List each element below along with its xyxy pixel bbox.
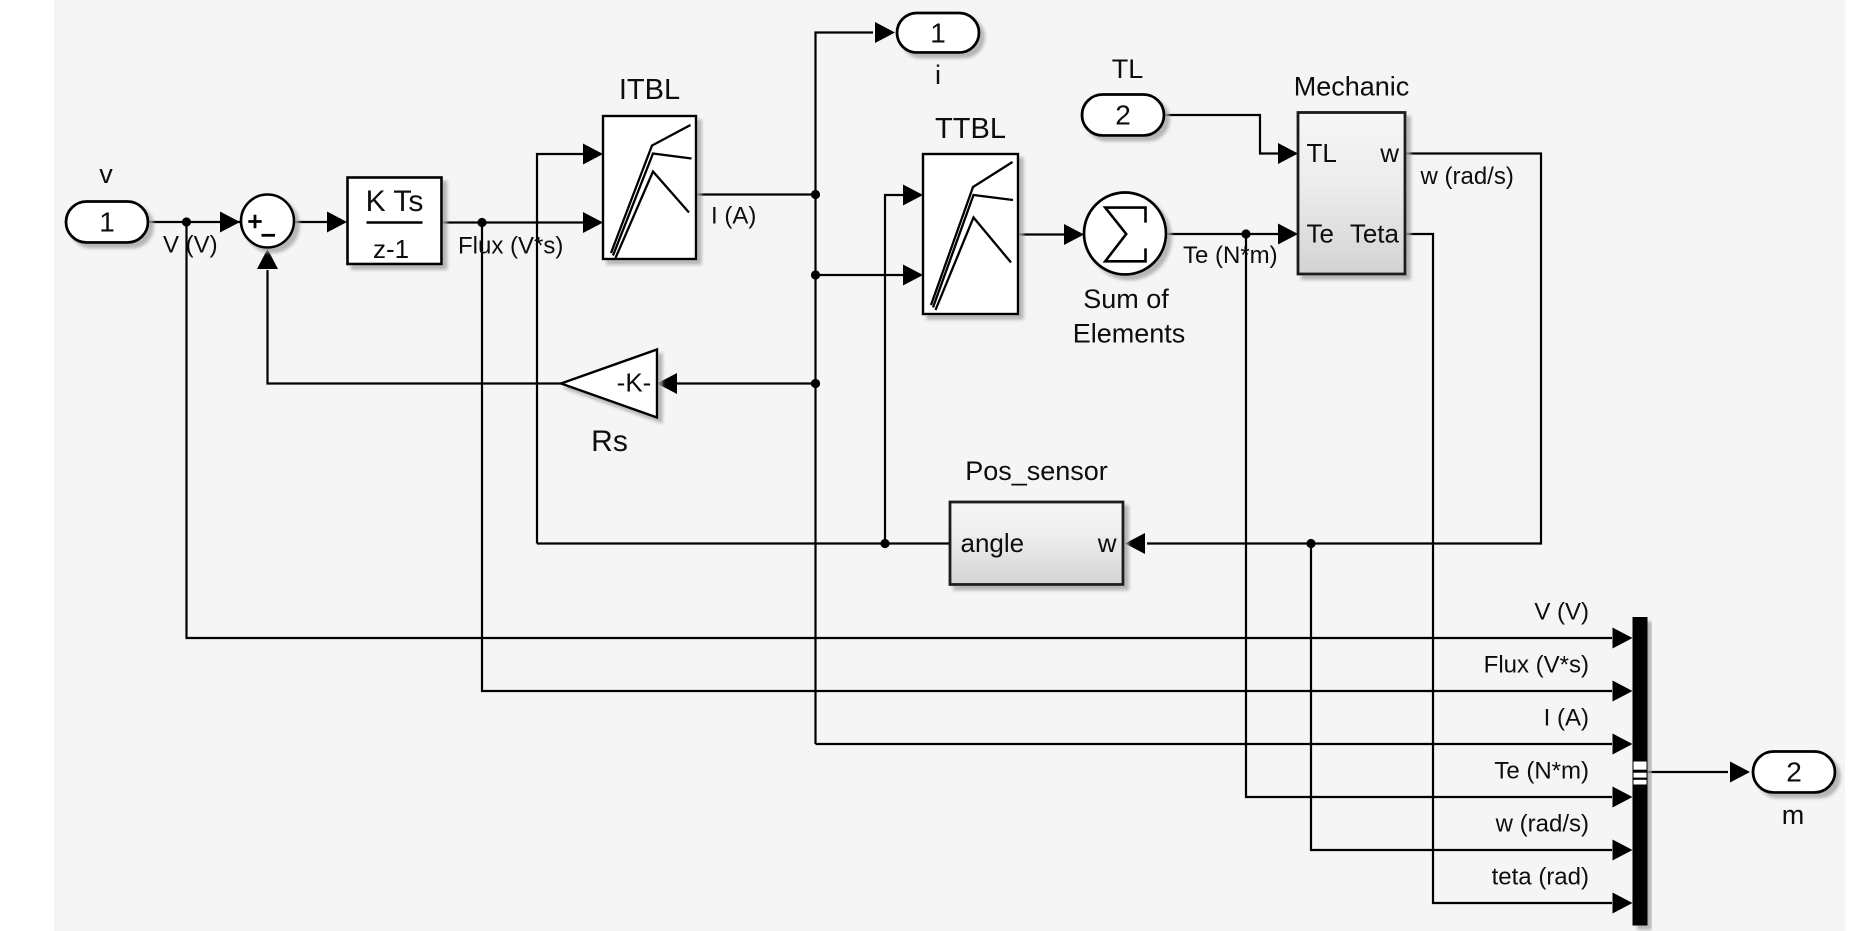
wire I to gain Rs input bbox=[677, 382, 816, 384]
svg-text:TTBL: TTBL bbox=[935, 113, 1006, 145]
subsystem block Mechanic bbox=[1298, 113, 1405, 275]
mux block bbox=[1633, 617, 1648, 926]
svg-text:Te (N*m): Te (N*m) bbox=[1494, 758, 1589, 785]
wire sum to K Ts block bbox=[295, 221, 345, 223]
svg-text:Teta: Teta bbox=[1350, 219, 1400, 249]
wire w branch to mux input 5 bbox=[1311, 544, 1612, 851]
wire Flux from K Ts to ITBL input 2 bbox=[442, 221, 602, 223]
wire w from Mechanic to Pos_sensor bbox=[1147, 154, 1541, 544]
wire gain Rs feedback to sum minus input bbox=[268, 270, 562, 384]
svg-text:teta (rad): teta (rad) bbox=[1492, 864, 1589, 891]
junction node on v line bbox=[182, 217, 191, 226]
wire Te branch to mux input 4 bbox=[1246, 234, 1612, 797]
wire I vertical trunk bbox=[816, 33, 874, 745]
junction node on Flux line bbox=[477, 218, 486, 227]
wire TL input to Mechanic bbox=[1164, 115, 1296, 154]
lookup table block ITBL bbox=[603, 116, 696, 259]
wire Te to Mechanic bbox=[1166, 233, 1296, 235]
svg-text:z-1: z-1 bbox=[373, 234, 409, 264]
wire TTBL output to sum of elements bbox=[1018, 233, 1082, 235]
svg-text:angle: angle bbox=[961, 528, 1025, 558]
wire I branch to mux input 3 bbox=[816, 743, 1613, 745]
svg-text:2: 2 bbox=[1115, 100, 1131, 131]
junction node I at ITBL output bbox=[811, 190, 820, 199]
junction node w bbox=[1306, 539, 1315, 548]
svg-text:m: m bbox=[1782, 800, 1805, 830]
svg-text:Flux (V*s): Flux (V*s) bbox=[458, 233, 563, 260]
junction node Te bbox=[1241, 229, 1250, 238]
svg-text:ITBL: ITBL bbox=[619, 74, 680, 106]
svg-text:I (A): I (A) bbox=[1544, 705, 1589, 732]
wire Teta from Mechanic to mux input 6 bbox=[1405, 234, 1612, 903]
svg-text:w: w bbox=[1379, 138, 1399, 168]
inport block 1 v bbox=[66, 202, 148, 243]
wire Flux branch to mux input 2 bbox=[482, 223, 1612, 692]
svg-text:1: 1 bbox=[930, 18, 946, 49]
lookup table block TTBL bbox=[923, 154, 1018, 314]
svg-text:Elements: Elements bbox=[1073, 319, 1186, 349]
wire v input to sum block bbox=[148, 221, 240, 223]
svg-text:K Ts: K Ts bbox=[366, 185, 424, 218]
junction node I to TTBL bbox=[811, 270, 820, 279]
svg-text:Te (N*m): Te (N*m) bbox=[1183, 242, 1278, 269]
sum block bbox=[241, 195, 294, 248]
wire I to TTBL input 2 bbox=[816, 274, 922, 276]
inport block 2 TL bbox=[1082, 95, 1164, 136]
discrete integrator block K Ts/(z-1) bbox=[348, 178, 442, 265]
svg-text:w (rad/s): w (rad/s) bbox=[1495, 811, 1589, 838]
svg-text:Mechanic: Mechanic bbox=[1294, 72, 1410, 102]
svg-text:1: 1 bbox=[99, 207, 115, 238]
wire angle to ITBL input 1 bbox=[537, 154, 601, 544]
wire angle from Pos_sensor bbox=[537, 542, 950, 544]
svg-text:TL: TL bbox=[1112, 54, 1144, 84]
svg-text:I (A): I (A) bbox=[711, 203, 756, 230]
svg-text:2: 2 bbox=[1786, 757, 1802, 788]
svg-text:Sum of: Sum of bbox=[1083, 284, 1169, 314]
junction node angle bbox=[880, 539, 889, 548]
svg-text:v: v bbox=[99, 159, 113, 189]
svg-text:Flux (V*s): Flux (V*s) bbox=[1484, 652, 1589, 679]
svg-text:w (rad/s): w (rad/s) bbox=[1420, 163, 1514, 190]
outport block 2 m bbox=[1753, 752, 1835, 793]
svg-text:V (V): V (V) bbox=[1534, 599, 1589, 626]
junction node I to gain bbox=[811, 379, 820, 388]
svg-text:-K-: -K- bbox=[617, 368, 652, 398]
svg-text:w: w bbox=[1097, 528, 1117, 558]
subsystem block Pos_sensor bbox=[950, 502, 1123, 585]
wire angle to TTBL input 1 bbox=[885, 195, 921, 544]
wire I (A) from ITBL output bbox=[696, 193, 816, 195]
svg-text:Pos_sensor: Pos_sensor bbox=[965, 456, 1108, 486]
svg-text:Te: Te bbox=[1307, 219, 1334, 249]
arrow into outport i bbox=[875, 22, 895, 43]
svg-text:TL: TL bbox=[1307, 138, 1337, 168]
wire V (V) branch to mux input 1 bbox=[187, 222, 1613, 638]
outport block 1 i bbox=[897, 13, 979, 53]
gain block -K- Rs bbox=[561, 350, 657, 418]
svg-text:Rs: Rs bbox=[591, 425, 628, 458]
wire mux output to outport m bbox=[1648, 771, 1729, 773]
svg-text:i: i bbox=[935, 60, 941, 90]
sum of elements block bbox=[1084, 193, 1166, 275]
svg-text:V (V): V (V) bbox=[163, 232, 218, 259]
